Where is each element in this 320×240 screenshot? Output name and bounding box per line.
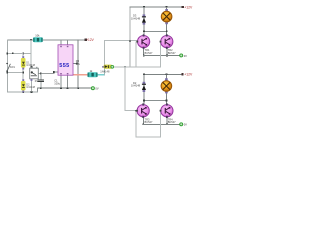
svg-text:47k: 47k xyxy=(76,62,81,66)
wire lamp column upper block bottom xyxy=(166,22,167,36)
wire cyan riser to D2 node xyxy=(104,67,105,76)
wire 555 right pin stub xyxy=(73,63,78,64)
transistor Q2 xyxy=(160,34,173,49)
svg-text:+12V: +12V xyxy=(86,38,94,42)
node junction (31.5,91.8) xyxy=(31,91,33,93)
wire D2 output y66.9 xyxy=(113,67,137,68)
node junction (67.6,91.8) xyxy=(67,87,69,89)
node junction on top rail xyxy=(30,39,32,41)
wire collector cross lower y100.9 xyxy=(143,100,167,101)
wire emitter rail lower y125.2 xyxy=(143,124,181,125)
svg-text:555: 555 xyxy=(59,63,69,69)
node junction (166.3,100.9) xyxy=(166,100,168,102)
svg-text:SW1: SW1 xyxy=(10,66,16,69)
node +12V terminal left xyxy=(85,39,87,41)
label Q3 xyxy=(145,117,153,124)
capacitor C1 plate bottom xyxy=(37,81,44,82)
svg-text:0V: 0V xyxy=(184,54,187,58)
svg-text:BC547: BC547 xyxy=(168,120,176,124)
svg-text:1N4148: 1N4148 xyxy=(100,70,110,74)
svg-text:100u: 100u xyxy=(54,81,60,85)
transistor Q4 xyxy=(160,103,173,118)
node junction (166.6,6.9) xyxy=(166,6,168,8)
node +12V terminal lower xyxy=(181,73,183,75)
wire base descender A x136.2 xyxy=(136,42,137,67)
wire 555 top pin stub x67.6 xyxy=(67,39,68,45)
wire collector cross upper y31.2 xyxy=(143,31,167,32)
svg-text:BC547: BC547 xyxy=(145,120,153,124)
op-amp-style IC U1 555 timer xyxy=(58,45,73,75)
resistor R2 (output series) xyxy=(87,69,97,77)
node junction (143.9,74.9) xyxy=(143,73,145,75)
wire 555 bottom pin x67.6 xyxy=(67,75,68,88)
node junction (143.9,31.2) xyxy=(143,30,145,32)
wire diode column x23 middle xyxy=(23,67,24,81)
node junction (23,91.8) xyxy=(22,91,24,93)
svg-text:BC547: BC547 xyxy=(168,51,176,55)
wire vertical x78 reset column xyxy=(78,39,79,88)
label Q1 xyxy=(145,48,153,55)
wire lamp column lower block top xyxy=(166,74,167,80)
label R3 value near pin xyxy=(76,59,81,66)
svg-text:10k: 10k xyxy=(35,33,40,37)
svg-text:1N4148: 1N4148 xyxy=(131,16,141,20)
label Q4 xyxy=(168,117,176,124)
wire emitter lead T2 xyxy=(166,48,167,56)
node junction (166.2,74.9) xyxy=(166,73,168,75)
node junction corner (125,66.9) xyxy=(124,66,126,68)
node junction (78,91.8) xyxy=(77,87,79,89)
lamp L1 (upper) xyxy=(161,9,172,24)
diode D4 (upper block, on T1 collector) xyxy=(131,13,146,24)
node junction (143.9,100.9) xyxy=(143,100,145,102)
svg-text:+12V: +12V xyxy=(184,5,193,9)
resistor R1 xyxy=(33,33,43,42)
wire pale horizontal y40.4 to base T1 xyxy=(104,40,138,41)
wire diode column upper block xyxy=(143,7,144,36)
wire diode column x23 lower xyxy=(23,90,24,92)
wire emitter lead T1 xyxy=(143,48,144,56)
label C1 value xyxy=(54,78,60,85)
svg-text:BC547: BC547 xyxy=(145,51,153,55)
lamp L2 (lower) xyxy=(161,78,172,93)
node junction (143.9,6.9) xyxy=(143,6,145,8)
node junction (12.6,53) xyxy=(12,52,14,54)
wire pale descender x125 xyxy=(125,67,126,111)
node junction (166.6,31.2) xyxy=(166,30,168,32)
node green terminal 0V rail xyxy=(91,87,94,90)
node box top pin junction (31.4,67) xyxy=(31,66,33,68)
node junction (23,72.5) xyxy=(22,72,24,74)
wire left vertical rail xyxy=(7,39,8,92)
node green terminal upper emitter rail xyxy=(180,54,183,57)
diode D2 (left column lower) xyxy=(21,79,36,92)
svg-text:1N4148: 1N4148 xyxy=(26,64,35,67)
svg-text:0V: 0V xyxy=(35,79,38,83)
wire box bottom pin to 0V xyxy=(31,79,32,92)
wire lower rail y74.9 xyxy=(143,74,183,75)
wire base descender B x160.6 xyxy=(160,42,161,67)
pin dot 555 left pin xyxy=(53,71,55,73)
node junction (23,53) xyxy=(22,53,24,55)
diode D3 (horizontal, output) xyxy=(100,65,112,74)
wire diode column lower block xyxy=(143,74,144,104)
svg-text:1N4148: 1N4148 xyxy=(131,84,141,88)
wire y53 horizontal xyxy=(7,53,31,54)
switch SW1 xyxy=(6,63,15,72)
wire base descender C x136.2 xyxy=(136,111,137,137)
wire box bottom lower y137.6 xyxy=(136,136,161,137)
wire 555 left pin stub xyxy=(54,72,58,73)
wire y72.5 switch-to-diode-column xyxy=(7,72,24,73)
wire vertical x130 rail drop xyxy=(130,7,131,67)
label Q2 xyxy=(168,48,176,55)
transistor Q1 xyxy=(136,34,149,49)
wire box right pin to 555 xyxy=(38,73,54,74)
svg-text:0V: 0V xyxy=(184,123,187,127)
diode D5 (lower block, on T3 collector) xyxy=(131,81,146,92)
wire output salmon segment xyxy=(73,74,88,75)
wire bottom 0V rail xyxy=(37,88,93,89)
svg-text:0V: 0V xyxy=(95,87,98,91)
transistor Q3 xyxy=(136,103,149,118)
wire base descender D x160.6 xyxy=(160,111,161,137)
wire capacitor column lower xyxy=(40,82,41,88)
diode D1 (left column upper) xyxy=(21,56,36,69)
node junction (7,72.5) xyxy=(6,72,8,74)
capacitor C1 plate top xyxy=(37,80,44,81)
node green terminal lower emitter rail xyxy=(180,123,183,126)
svg-text:1N4148: 1N4148 xyxy=(26,86,35,89)
wire capacitor column upper xyxy=(40,73,41,79)
node junction (166.8,125.2) xyxy=(166,123,168,125)
wire lamp column upper block top xyxy=(166,7,167,12)
wire x31 vertical rail-to-box xyxy=(31,39,32,67)
pin dot 555 right pin xyxy=(76,63,78,65)
node junction (7,53) xyxy=(6,53,8,55)
node junction (143.6,55.2) xyxy=(143,55,145,57)
node junction (130,40.7) xyxy=(129,40,131,42)
wire upper rail y6.9 xyxy=(130,7,183,8)
node junction (143.6,125.2) xyxy=(142,123,144,125)
wire 555 top pin stub x61 xyxy=(61,39,62,45)
wire pale vertical x104 xyxy=(104,40,105,67)
node junction (61,91.8) xyxy=(60,87,62,89)
wire 555 bottom pin x61 xyxy=(61,75,62,88)
relay box LS1 xyxy=(30,67,39,83)
wire output cyan segment xyxy=(98,74,106,75)
wire lower base feed y111.5 xyxy=(125,110,138,111)
wire diode column x23 upper xyxy=(23,53,24,58)
wire lamp column lower block bottom xyxy=(166,91,167,104)
wire emitter lead T3 xyxy=(143,117,144,125)
wire emitter lead T4 xyxy=(167,117,168,125)
node +12V terminal upper xyxy=(182,6,184,8)
node junction (136,111.5) xyxy=(135,110,137,112)
svg-text:+12V: +12V xyxy=(184,73,193,77)
node green terminal D3 output xyxy=(111,65,114,68)
wire box bottom upper y66.9 xyxy=(136,67,161,68)
node junction (166.8,55.2) xyxy=(166,55,168,57)
wire top supply rail xyxy=(7,39,86,40)
node junction (40.8,73.3) xyxy=(40,73,42,75)
wire emitter rail upper y55.2 xyxy=(143,55,180,56)
